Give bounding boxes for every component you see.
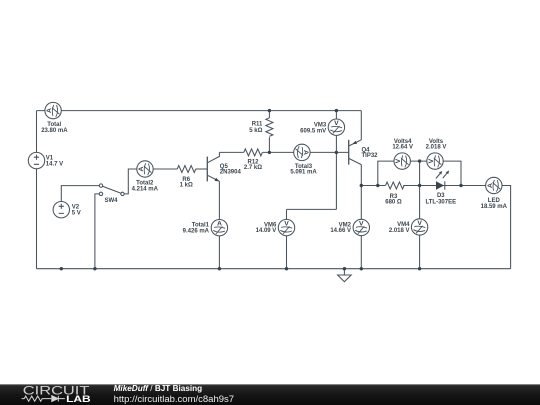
junction Total1-ground rail: [218, 267, 221, 270]
ammeter LED: [486, 177, 502, 193]
svg-text:1 kΩ: 1 kΩ: [180, 183, 193, 189]
wire VM3 vertical: [335, 111, 337, 210]
resistor R12: [244, 149, 263, 156]
wire switch common to Total2: [124, 169, 137, 194]
svg-text:2N3904: 2N3904: [220, 170, 242, 176]
wire right side: [461, 186, 511, 269]
wire Q5 collector to R12: [219, 151, 243, 153]
svg-text:2.7 kΩ: 2.7 kΩ: [244, 165, 262, 171]
wire R3 to D3: [403, 185, 436, 187]
voltmeter VM4: [411, 219, 427, 235]
junction Q4 collector node: [360, 184, 363, 187]
svg-text:http://circuitlab.com/c8ah9s7: http://circuitlab.com/c8ah9s7: [114, 394, 235, 404]
svg-text:680 Ω: 680 Ω: [385, 200, 402, 206]
junction R11-R12 node: [268, 151, 271, 154]
wire R6 to Q5 base: [196, 168, 208, 170]
resistor R3: [386, 182, 405, 189]
svg-text:5 kΩ: 5 kΩ: [249, 128, 262, 134]
resistor R11: [266, 111, 273, 153]
wire Total2 to R6: [153, 168, 177, 170]
svg-text:14.09 V: 14.09 V: [256, 228, 277, 234]
source V1: [28, 152, 44, 168]
wire Q5 emitter down: [218, 181, 220, 268]
svg-text:4.214 mA: 4.214 mA: [132, 186, 159, 192]
svg-text:14.66 V: 14.66 V: [330, 228, 351, 234]
wire Q4 emitter up: [360, 111, 362, 140]
wire V2 top to switch: [61, 186, 99, 202]
junction ground symbol-rail: [343, 267, 346, 270]
switch SW4: [99, 184, 124, 196]
svg-text:23.80 mA: 23.80 mA: [41, 128, 68, 134]
wire Total3 to Q4 base: [310, 151, 349, 153]
svg-text:5 V: 5 V: [72, 211, 81, 217]
svg-text:D3: D3: [437, 193, 445, 199]
svg-text:VM3: VM3: [314, 122, 327, 128]
wire Volts4 to Volts: [410, 160, 426, 162]
footer bar: [0, 384, 540, 405]
junction Volts4-Volts-VM4 node: [418, 159, 421, 162]
voltmeter VM3: [328, 119, 344, 135]
svg-text:18.59 mA: 18.59 mA: [481, 204, 508, 210]
junction VM4 riser-R3 row: [418, 184, 421, 187]
ammeter Total1: [211, 220, 227, 236]
wire Volts4 left lead: [378, 161, 394, 185]
svg-text:MikeDuff / BJT Biasing: MikeDuff / BJT Biasing: [114, 384, 203, 393]
diode D3: [436, 171, 449, 190]
wire Volts right lead: [443, 161, 461, 185]
wire R12 to Total3: [263, 151, 294, 153]
svg-text:9.426 mA: 9.426 mA: [183, 229, 210, 235]
svg-text:2.018 V: 2.018 V: [426, 145, 447, 151]
wire top rail: [37, 110, 362, 112]
voltmeter Volts: [427, 153, 443, 169]
junction V2-ground rail: [60, 267, 63, 270]
svg-text:12.64 V: 12.64 V: [392, 145, 413, 151]
wire left rail: [36, 111, 38, 269]
junction R11-top rail: [268, 109, 271, 112]
ammeter Total3: [294, 144, 310, 160]
junction SW4-ground rail: [93, 267, 96, 270]
svg-text:SW4: SW4: [104, 198, 118, 204]
svg-text:TIP32: TIP32: [362, 153, 379, 159]
transistor Q5: [207, 152, 219, 181]
ammeter Total: [45, 102, 61, 118]
junction Volts4 lead node: [376, 184, 379, 187]
junction VM2-ground rail: [360, 267, 363, 270]
junction VM3-top rail: [335, 109, 338, 112]
voltmeter VM6: [278, 219, 294, 235]
source V2: [53, 202, 69, 218]
wire node to R3: [361, 185, 385, 187]
junction VM6-ground rail: [285, 267, 288, 270]
wire VM4 riser: [419, 161, 421, 269]
svg-text:LTL-307EE: LTL-307EE: [426, 200, 457, 206]
wire switch lower throw stub: [95, 194, 99, 269]
svg-text:2.018 V: 2.018 V: [389, 228, 410, 234]
wire Q4 collector down: [360, 165, 362, 269]
junction VM4-ground rail: [418, 267, 421, 270]
ground: [338, 269, 352, 282]
svg-text:5.091 mA: 5.091 mA: [290, 170, 317, 176]
wire LED row: [436, 185, 461, 187]
ammeter Total2: [137, 161, 153, 177]
voltmeter VM2: [353, 219, 369, 235]
svg-text:609.5 mV: 609.5 mV: [300, 129, 326, 135]
svg-text:R11: R11: [252, 122, 263, 128]
transistor Q4: [349, 140, 362, 165]
wire bottom rail: [37, 268, 511, 270]
resistor R6: [177, 166, 196, 173]
logo glyph: [22, 396, 65, 402]
svg-text:LAB: LAB: [66, 394, 91, 405]
voltmeter Volts4: [394, 153, 410, 169]
wire VM3 branch to VM6: [287, 209, 337, 268]
junction Volts lead-D3 cathode node: [459, 184, 462, 187]
junction VM3-Q4 base node: [335, 151, 338, 154]
svg-text:14.7 V: 14.7 V: [46, 162, 63, 168]
